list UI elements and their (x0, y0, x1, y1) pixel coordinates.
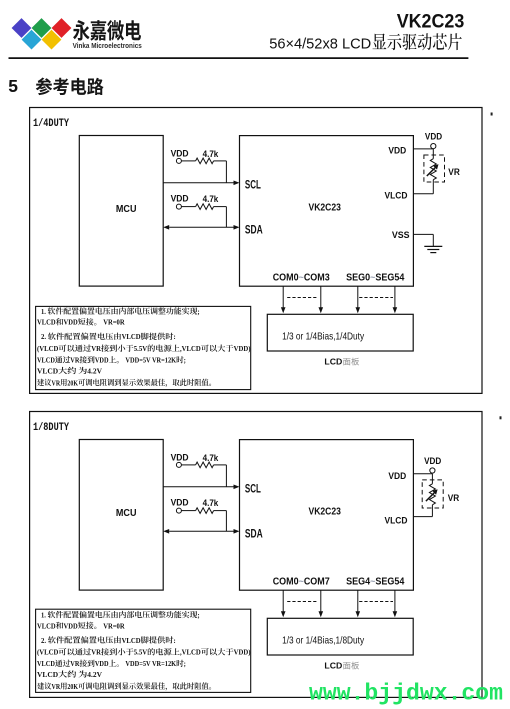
svg-text:LCD: LCD (324, 661, 342, 671)
svg-text:COM0~COM7: COM0~COM7 (273, 576, 330, 587)
COM bus dashed mark (287, 297, 317, 299)
svg-text::: : (173, 636, 175, 645)
svg-text:1/3 or 1/4Bias,1/8Duty: 1/3 or 1/4Bias,1/8Duty (282, 635, 365, 646)
svg-text:VDD: VDD (171, 452, 189, 462)
ground (424, 245, 442, 247)
svg-text:VR: VR (448, 167, 460, 177)
svg-text:5.5V: 5.5V (134, 648, 147, 657)
svg-text:;: ; (184, 659, 186, 668)
svg-text::: : (173, 332, 175, 341)
svg-text:SDA: SDA (245, 527, 263, 541)
header rule (9, 57, 469, 59)
svg-text:4.7k: 4.7k (203, 149, 220, 159)
svg-text:VLCD: VLCD (122, 636, 141, 645)
svg-text:VDD: VDD (171, 148, 189, 158)
svg-text:VR: VR (448, 493, 460, 503)
stray dot 1 (491, 113, 493, 116)
svg-text:2.: 2. (41, 636, 48, 645)
svg-text:VDD): VDD) (234, 344, 251, 353)
wire: VDD pin to VDD terminal (413, 148, 433, 150)
LCD panel box (267, 314, 413, 351)
svg-text:VR: VR (52, 378, 61, 387)
svg-text:VLCD: VLCD (37, 318, 56, 327)
svg-text:VR: VR (52, 682, 61, 691)
svg-text:VDD: VDD (425, 132, 443, 142)
COM bus dashed mark (287, 601, 317, 603)
svg-text:VLCD: VLCD (37, 659, 55, 668)
svg-text:VLCD: VLCD (385, 191, 408, 201)
svg-text:VDD): VDD) (234, 648, 251, 657)
wire: R1 down to SCL node (225, 161, 227, 183)
svg-text:20K: 20K (67, 378, 78, 387)
svg-text:VR: VR (70, 356, 79, 365)
wire SCL: MCU to VK2C23 (163, 182, 233, 184)
svg-text:VK2C23: VK2C23 (309, 507, 342, 518)
svg-text:5: 5 (8, 76, 18, 96)
svg-text:VDD: VDD (64, 621, 78, 630)
svg-text:VDD: VDD (64, 318, 78, 327)
svg-text:www.bjjdwx.com: www.bjjdwx.com (309, 680, 503, 706)
wire: VDD pin to VDD terminal (413, 473, 432, 475)
COM bus wire 1 (282, 286, 284, 307)
circuit frame 1/8DUTY (30, 412, 482, 698)
SEG bus wire 1 (357, 590, 359, 611)
svg-text:(VLCD: (VLCD (37, 344, 59, 353)
svg-text:VLCD: VLCD (37, 621, 56, 630)
svg-text:VLCD: VLCD (37, 670, 58, 679)
svg-text:56×4/52x8 LCD: 56×4/52x8 LCD (269, 35, 371, 52)
svg-text:VLCD: VLCD (37, 356, 55, 365)
svg-text:VR=0R: VR=0R (102, 318, 125, 327)
svg-text:VDD: VDD (388, 471, 406, 481)
MCU box (79, 440, 163, 591)
SEG bus dashed mark (359, 297, 393, 299)
svg-text:4.2V: 4.2V (87, 366, 102, 375)
svg-text:5.5V: 5.5V (134, 344, 147, 353)
svg-text:VDD=5V VR=12K: VDD=5V VR=12K (124, 356, 176, 365)
svg-text:1.: 1. (41, 611, 47, 620)
SEG bus dashed mark (359, 601, 393, 603)
driver IC VK2C23 box (240, 136, 414, 287)
svg-text:4.7k: 4.7k (203, 498, 220, 508)
svg-text:,VLCD: ,VLCD (180, 648, 201, 657)
wire: VDD node down into VR (431, 474, 433, 484)
svg-text:1.: 1. (41, 307, 47, 316)
COM bus wire 2 (320, 590, 322, 611)
svg-text:VDD: VDD (171, 497, 189, 507)
wire SDA: MCU to VK2C23 (bidirectional) (169, 226, 233, 228)
MCU box (79, 136, 163, 287)
SEG bus wire 2 (394, 590, 396, 611)
note box (36, 306, 251, 389)
svg-text:4.2V: 4.2V (87, 670, 102, 679)
svg-text:Vinka Microelectronics: Vinka Microelectronics (73, 41, 142, 50)
LCD panel box (267, 618, 413, 655)
svg-text:VDD: VDD (95, 356, 109, 365)
svg-text:;: ; (184, 356, 186, 365)
wire SCL: MCU to VK2C23 (163, 486, 233, 488)
svg-text:VLCD: VLCD (122, 332, 141, 341)
svg-text:VK2C23: VK2C23 (397, 11, 465, 33)
svg-text:;: ; (197, 611, 199, 620)
svg-text:MCU: MCU (116, 204, 137, 215)
svg-text:MCU: MCU (116, 508, 137, 519)
SEG bus wire 1 (357, 286, 359, 307)
svg-text:VR: VR (70, 659, 79, 668)
wire: R2 down to SDA node (225, 207, 227, 228)
wiper arrow of VR (427, 167, 437, 177)
svg-text:VK2C23: VK2C23 (309, 203, 342, 214)
svg-text:VSS: VSS (392, 230, 410, 240)
svg-text:VR: VR (91, 648, 101, 657)
logo diamonds (12, 18, 32, 38)
wire SDA: MCU to VK2C23 (bidirectional) (169, 530, 233, 532)
svg-text:VR: VR (91, 344, 101, 353)
svg-text:;: ; (197, 307, 199, 316)
COM bus wire 1 (282, 590, 284, 611)
svg-text:SCL: SCL (245, 177, 261, 191)
COM bus wire 2 (320, 286, 322, 307)
driver IC VK2C23 box (240, 440, 414, 591)
wire: VR bottom to VLCD pin (432, 180, 434, 194)
svg-text:4.7k: 4.7k (203, 194, 220, 204)
wire: R1 down to SCL node (225, 465, 227, 487)
svg-text:SEG0~SEG54: SEG0~SEG54 (346, 273, 405, 284)
svg-text:2.: 2. (41, 332, 48, 341)
potentiometer VR (dashed box) (422, 480, 443, 508)
svg-text:4.7k: 4.7k (203, 453, 220, 463)
svg-text:1/8DUTY: 1/8DUTY (33, 422, 69, 434)
svg-text:VDD: VDD (388, 145, 406, 155)
wire: VSS pin to ground (413, 233, 433, 235)
svg-text:SCL: SCL (245, 481, 261, 495)
svg-text:1/4DUTY: 1/4DUTY (33, 118, 69, 130)
wire: VDD node down into VR (432, 149, 434, 159)
potentiometer VR (dashed box) (424, 155, 445, 182)
svg-text:VDD=5V VR=12K: VDD=5V VR=12K (124, 659, 176, 668)
svg-text:COM0~COM3: COM0~COM3 (273, 272, 330, 283)
svg-text:VLCD: VLCD (37, 366, 58, 375)
note box (36, 609, 251, 692)
wire: R2 down to SDA node (225, 511, 227, 532)
svg-text:VR=0R: VR=0R (102, 621, 125, 630)
stray dot 2 (500, 416, 502, 419)
svg-text:VDD: VDD (424, 456, 442, 466)
svg-text:VLCD: VLCD (385, 516, 408, 526)
svg-text:1/3 or 1/4Bias,1/4Duty: 1/3 or 1/4Bias,1/4Duty (282, 331, 365, 342)
svg-text:,VLCD: ,VLCD (180, 344, 201, 353)
svg-text:SDA: SDA (245, 223, 263, 237)
svg-text:VDD: VDD (171, 193, 189, 203)
svg-text:(VLCD: (VLCD (37, 648, 59, 657)
SEG bus wire 2 (394, 286, 396, 307)
circuit frame 1/4DUTY (30, 108, 482, 394)
wiper arrow of VR (426, 492, 436, 502)
wire: VR bottom to VLCD pin (431, 505, 433, 517)
svg-text:20K: 20K (67, 682, 78, 691)
svg-text:VDD: VDD (95, 659, 109, 668)
svg-text:LCD: LCD (324, 357, 342, 367)
svg-text:SEG4~SEG54: SEG4~SEG54 (346, 577, 405, 588)
logo text 永嘉微电 (73, 20, 90, 40)
